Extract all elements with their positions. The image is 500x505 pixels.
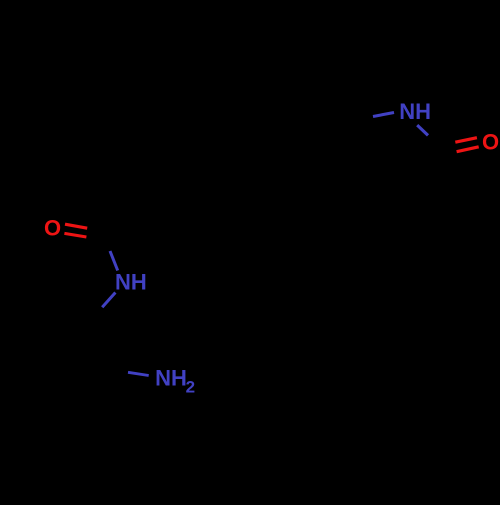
svg-text:NH: NH <box>155 365 187 390</box>
bond C-N (half) above left NH <box>110 251 118 271</box>
double bond O=C upper line (left carbonyl) <box>65 224 87 228</box>
svg-text:O: O <box>44 215 61 240</box>
bond C-N (half) left of NH2 <box>128 372 149 375</box>
bond N-C(=O) (half) below top NH <box>417 125 428 135</box>
double bond O=C lower line (left carbonyl) <box>64 233 86 237</box>
double bond C=O upper line (right carbonyl) <box>455 138 477 143</box>
double bond C=O lower line (right carbonyl) <box>457 147 479 152</box>
bond C-N (half) left of top NH <box>373 113 394 117</box>
bond N-C (half) below left NH <box>102 293 115 308</box>
svg-text:NH: NH <box>115 270 147 295</box>
svg-text:NH: NH <box>399 99 431 124</box>
svg-text:2: 2 <box>186 378 195 397</box>
svg-text:O: O <box>482 129 499 154</box>
